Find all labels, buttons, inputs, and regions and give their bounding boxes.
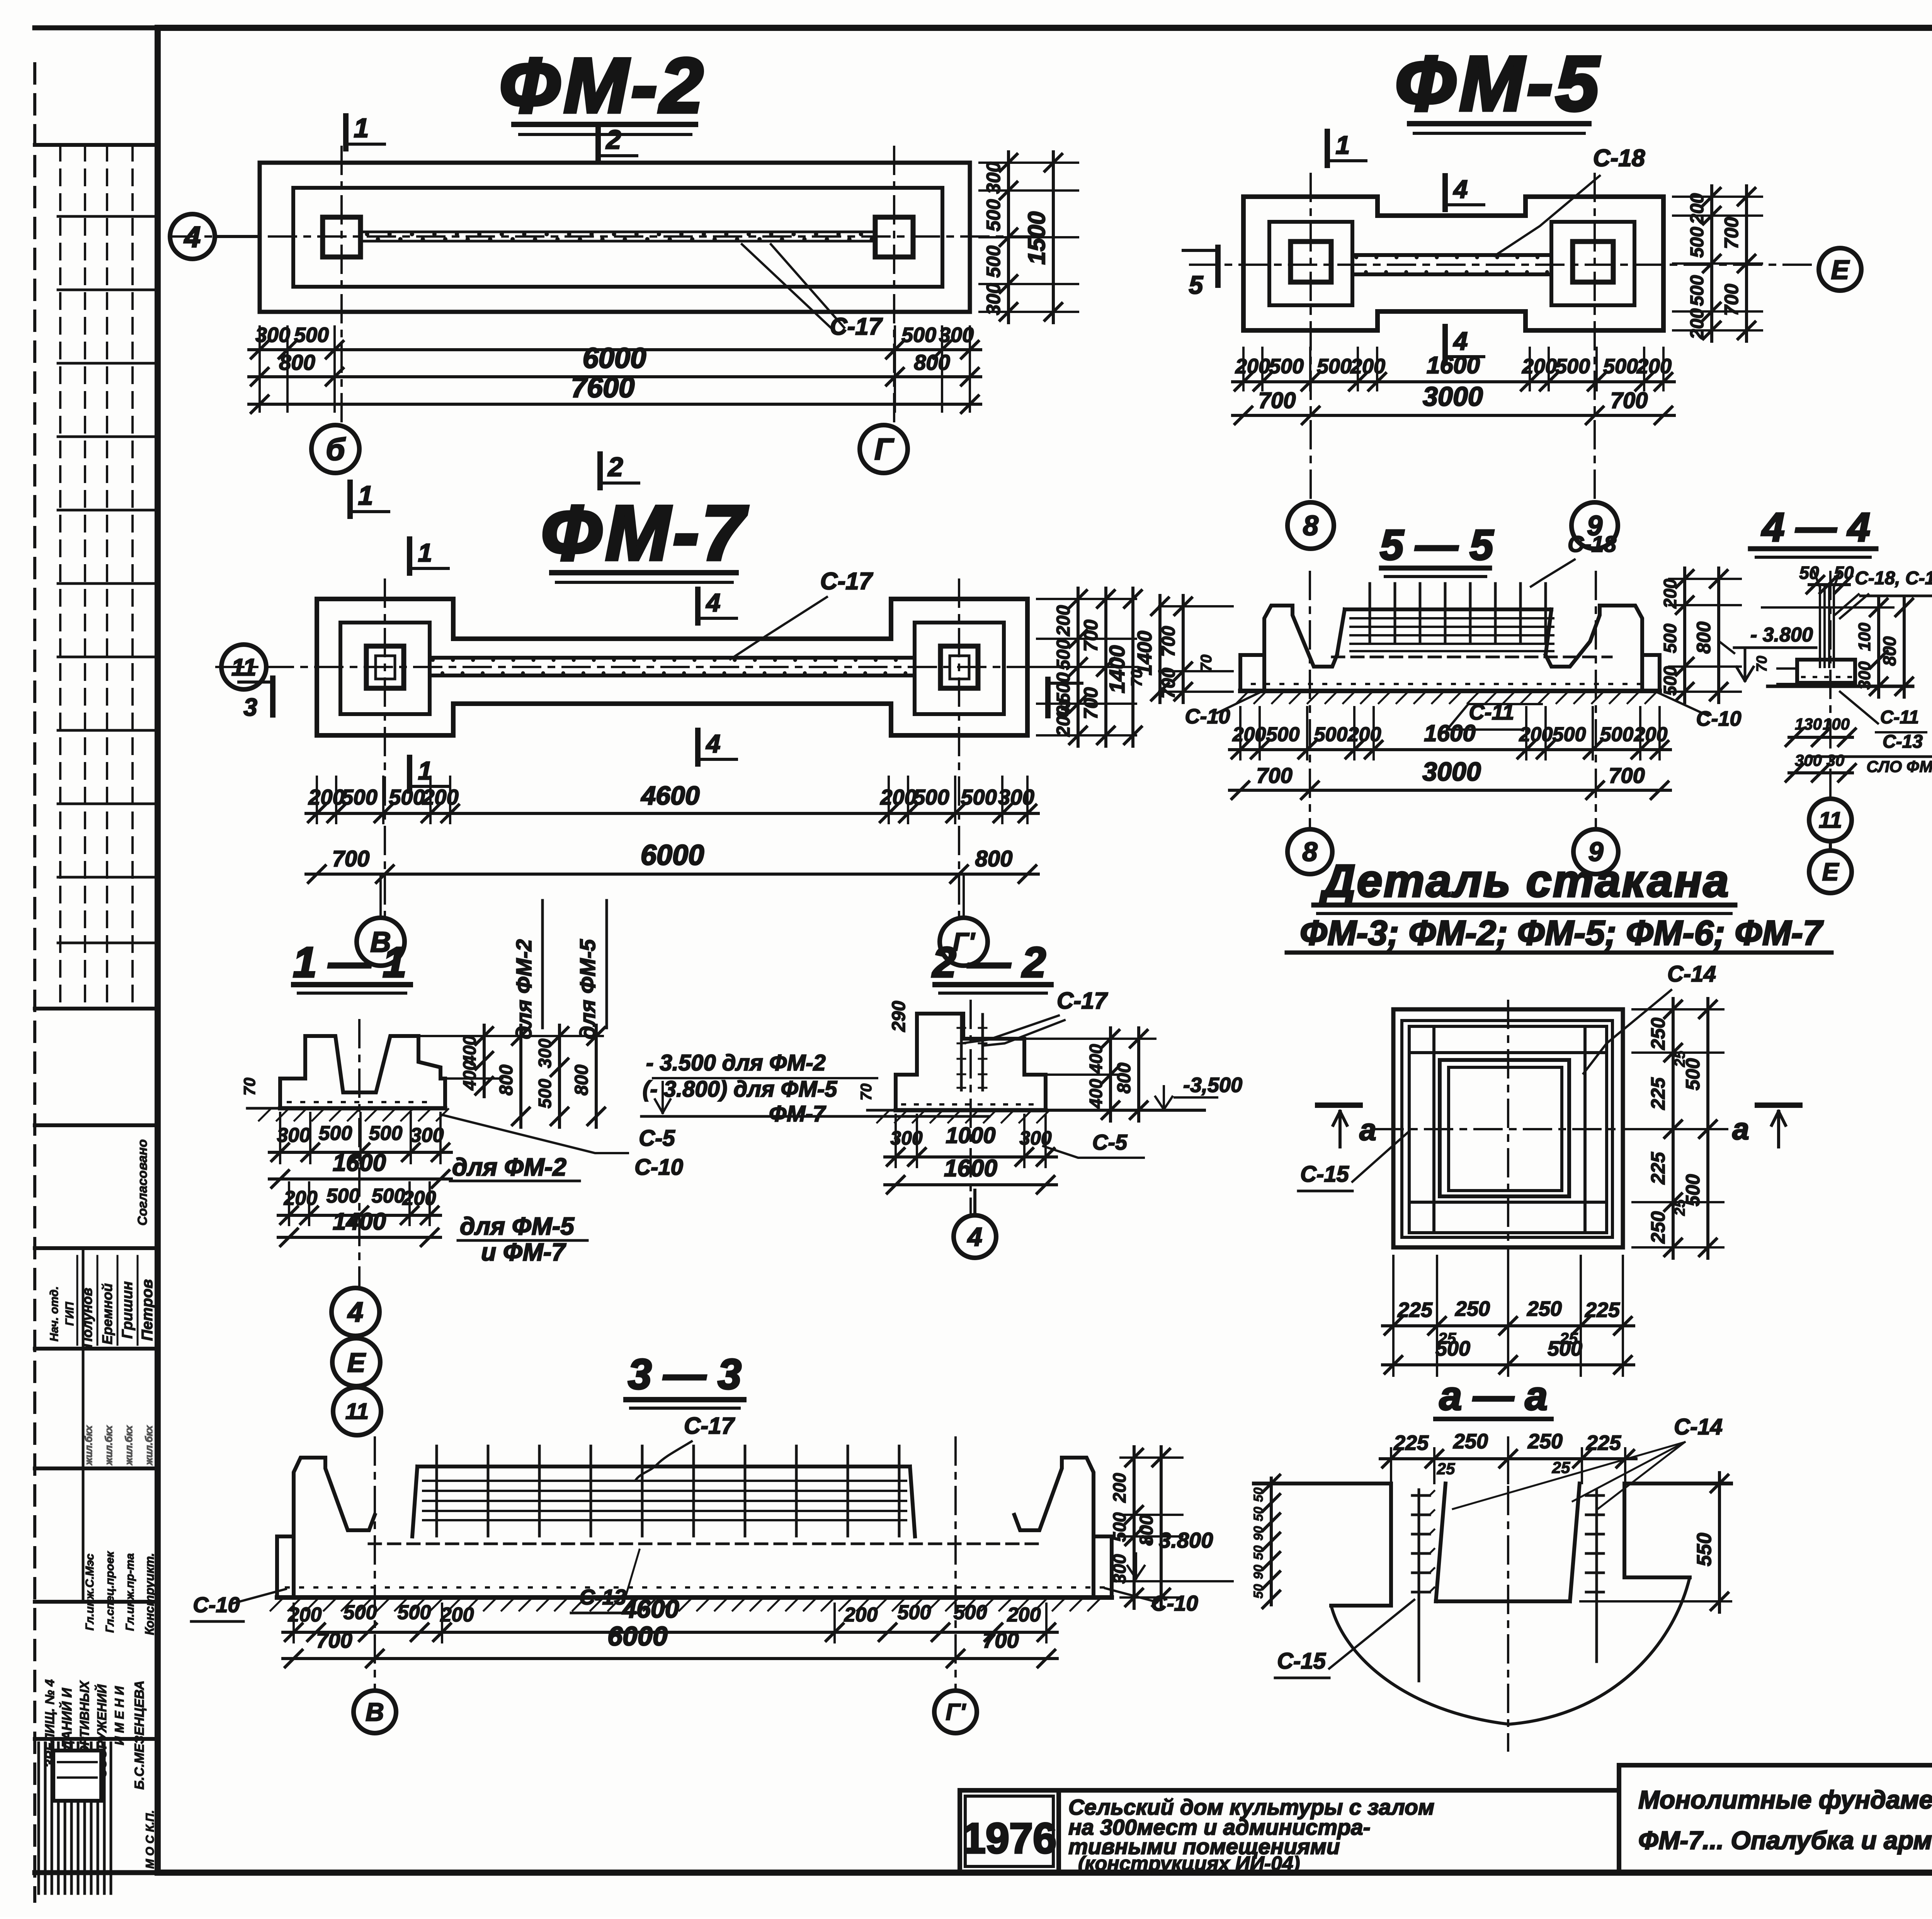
svg-text:200: 200 <box>1235 355 1270 378</box>
svg-text:С-14: С-14 <box>1674 1414 1723 1439</box>
svg-text:1: 1 <box>354 113 369 143</box>
svg-text:90: 90 <box>1251 1565 1266 1579</box>
svg-text:С-13: С-13 <box>579 1585 626 1609</box>
svg-text:400: 400 <box>459 1060 480 1090</box>
svg-text:С-10: С-10 <box>1696 707 1741 730</box>
svg-text:500: 500 <box>1548 1337 1582 1360</box>
svg-text:5: 5 <box>1189 270 1204 299</box>
svg-text:С-18: С-18 <box>1568 532 1616 557</box>
svg-text:200: 200 <box>440 1604 474 1626</box>
svg-text:1600: 1600 <box>1424 720 1475 746</box>
svg-text:500: 500 <box>1317 355 1352 378</box>
svg-text:500: 500 <box>1314 723 1348 746</box>
svg-text:200: 200 <box>308 785 344 809</box>
svg-text:800: 800 <box>1693 621 1714 654</box>
svg-text:200: 200 <box>880 785 916 809</box>
svg-text:300: 300 <box>410 1124 444 1147</box>
svg-text:500: 500 <box>1266 723 1300 746</box>
svg-text:Конструикт.: Конструикт. <box>143 1553 156 1635</box>
svg-text:4: 4 <box>706 588 721 617</box>
svg-text:Е: Е <box>1831 255 1850 285</box>
svg-text:М О С К.П.: М О С К.П. <box>144 1810 156 1869</box>
svg-text:ФМ-5: ФМ-5 <box>1395 41 1602 127</box>
svg-text:290: 290 <box>889 1001 909 1032</box>
svg-text:500: 500 <box>341 785 377 809</box>
svg-text:200: 200 <box>1519 723 1553 746</box>
svg-text:500: 500 <box>1053 672 1074 703</box>
svg-text:200: 200 <box>1350 355 1385 378</box>
svg-text:для ФМ-2: для ФМ-2 <box>512 939 536 1039</box>
svg-text:700: 700 <box>1259 388 1296 413</box>
svg-text:500: 500 <box>1553 723 1586 746</box>
svg-text:700: 700 <box>1609 763 1645 788</box>
svg-text:500: 500 <box>389 785 425 809</box>
svg-text:500: 500 <box>1687 227 1708 258</box>
svg-text:25: 25 <box>1437 1460 1455 1478</box>
svg-text:б: б <box>326 432 346 466</box>
svg-text:Гл.инж.С.Мэс: Гл.инж.С.Мэс <box>83 1553 96 1630</box>
svg-text:-3,500: -3,500 <box>1183 1073 1242 1097</box>
svg-text:800: 800 <box>1879 636 1900 666</box>
svg-text:200: 200 <box>1053 706 1074 737</box>
svg-text:800: 800 <box>496 1065 517 1096</box>
svg-text:800: 800 <box>975 846 1013 871</box>
svg-text:Е: Е <box>347 1347 366 1378</box>
svg-text:С-17: С-17 <box>820 568 873 595</box>
svg-text:25: 25 <box>1672 1199 1688 1216</box>
svg-text:500: 500 <box>901 323 936 347</box>
svg-text:500: 500 <box>1687 275 1708 306</box>
svg-text:a: a <box>1359 1113 1376 1147</box>
svg-text:250: 250 <box>1453 1430 1488 1453</box>
svg-text:225: 225 <box>1647 1152 1669 1185</box>
svg-text:700: 700 <box>1080 687 1102 720</box>
svg-text:1976: 1976 <box>962 1815 1057 1862</box>
svg-text:11: 11 <box>1819 808 1842 833</box>
svg-text:300: 300 <box>998 785 1034 809</box>
svg-text:11: 11 <box>231 654 256 681</box>
svg-text:400: 400 <box>1086 1044 1106 1074</box>
svg-text:С-10: С-10 <box>634 1155 683 1180</box>
svg-text:4: 4 <box>1453 175 1468 203</box>
svg-text:250: 250 <box>1527 1297 1562 1320</box>
svg-text:С-17: С-17 <box>830 313 883 340</box>
svg-text:700: 700 <box>1611 388 1648 413</box>
svg-text:1400: 1400 <box>1105 645 1129 694</box>
svg-text:3: 3 <box>243 693 257 721</box>
svg-text:Гл.спец.проек: Гл.спец.проек <box>104 1551 116 1633</box>
svg-text:200: 200 <box>1007 1604 1041 1626</box>
svg-text:700: 700 <box>316 1628 352 1652</box>
svg-text:Е: Е <box>1822 858 1840 886</box>
svg-text:300: 300 <box>983 162 1004 194</box>
svg-text:500: 500 <box>1555 355 1590 378</box>
svg-text:800: 800 <box>571 1065 592 1096</box>
svg-text:200: 200 <box>1522 355 1557 378</box>
svg-text:(- 3.800) для ФМ-5: (- 3.800) для ФМ-5 <box>643 1077 837 1102</box>
svg-text:500: 500 <box>1109 1512 1129 1542</box>
svg-text:2 — 2: 2 — 2 <box>932 939 1046 986</box>
svg-text:1 — 1: 1 — 1 <box>293 939 406 986</box>
svg-text:С-17: С-17 <box>1057 988 1108 1014</box>
svg-text:50: 50 <box>1251 1487 1266 1502</box>
svg-text:200: 200 <box>1109 1473 1129 1503</box>
svg-text:200: 200 <box>402 1187 436 1210</box>
svg-text:ФМ-7: ФМ-7 <box>769 1101 827 1126</box>
svg-text:Нач. отд.: Нач. отд. <box>48 1286 61 1342</box>
svg-text:300: 300 <box>277 1124 311 1147</box>
svg-text:7600: 7600 <box>571 371 635 403</box>
svg-text:400: 400 <box>1086 1079 1106 1109</box>
svg-text:5 — 5: 5 — 5 <box>1380 521 1494 569</box>
svg-text:250: 250 <box>1527 1430 1563 1453</box>
svg-text:25: 25 <box>1552 1458 1570 1477</box>
svg-text:70: 70 <box>1198 655 1215 672</box>
svg-text:500: 500 <box>954 1601 987 1624</box>
svg-text:25: 25 <box>1672 1050 1688 1067</box>
svg-text:С-13: С-13 <box>1883 732 1923 752</box>
svg-text:500: 500 <box>327 1185 360 1207</box>
svg-text:ФМ-7... Опалубка и армирова: ФМ-7... Опалубка и армирование <box>1638 1826 1932 1854</box>
svg-text:200: 200 <box>844 1604 878 1626</box>
svg-text:200: 200 <box>1232 723 1266 746</box>
svg-text:С-18, С-17: С-18, С-17 <box>1855 568 1932 589</box>
svg-text:90: 90 <box>1251 1526 1266 1541</box>
svg-text:С-5: С-5 <box>639 1126 675 1151</box>
svg-text:200: 200 <box>1634 723 1668 746</box>
svg-text:3000: 3000 <box>1422 757 1481 786</box>
svg-text:6000: 6000 <box>641 839 704 871</box>
svg-text:50: 50 <box>1251 1507 1266 1521</box>
svg-text:500: 500 <box>398 1601 431 1624</box>
svg-text:200: 200 <box>1687 308 1708 340</box>
svg-text:70: 70 <box>858 1084 875 1101</box>
svg-text:300: 300 <box>939 323 974 347</box>
svg-text:700: 700 <box>1721 284 1742 316</box>
svg-text:8: 8 <box>1303 837 1318 867</box>
svg-text:225: 225 <box>1393 1431 1429 1455</box>
svg-text:ФМ-2: ФМ-2 <box>499 43 706 129</box>
svg-text:ФМ-3; ФМ-2; ФМ-5; ФМ-6; ФМ: ФМ-3; ФМ-2; ФМ-5; ФМ-6; ФМ-7 <box>1300 914 1824 953</box>
svg-text:Г': Г' <box>946 1699 966 1725</box>
svg-text:500: 500 <box>983 245 1004 278</box>
svg-text:500: 500 <box>961 785 997 809</box>
svg-text:500: 500 <box>913 785 949 809</box>
svg-text:800: 800 <box>279 350 315 374</box>
svg-text:1: 1 <box>418 538 432 567</box>
svg-text:700: 700 <box>1721 217 1742 249</box>
svg-text:для ФМ-5: для ФМ-5 <box>460 1212 575 1240</box>
svg-text:1400: 1400 <box>1134 631 1156 675</box>
svg-text:4600: 4600 <box>622 1594 679 1623</box>
svg-text:1000: 1000 <box>946 1123 995 1148</box>
svg-text:С-14: С-14 <box>1667 961 1716 987</box>
svg-text:500: 500 <box>535 1079 555 1108</box>
svg-text:700: 700 <box>332 846 370 871</box>
svg-text:500: 500 <box>1435 1337 1470 1360</box>
svg-text:С-15: С-15 <box>1277 1649 1326 1674</box>
svg-text:С-10: С-10 <box>193 1592 240 1617</box>
svg-text:11: 11 <box>345 1399 369 1424</box>
svg-text:Гл.инж.пр-та: Гл.инж.пр-та <box>124 1553 136 1631</box>
svg-text:225: 225 <box>1397 1298 1433 1322</box>
svg-text:1: 1 <box>358 480 373 510</box>
svg-text:Согласовано: Согласовано <box>135 1139 150 1226</box>
svg-text:500: 500 <box>1053 639 1074 670</box>
svg-text:500: 500 <box>898 1601 931 1624</box>
svg-text:Б.С.МЕЗЕНЦЕВА: Б.С.МЕЗЕНЦЕВА <box>132 1681 147 1790</box>
svg-text:225: 225 <box>1585 1298 1620 1322</box>
svg-text:С-15: С-15 <box>1300 1162 1349 1187</box>
svg-text:70: 70 <box>1754 656 1770 672</box>
svg-text:800: 800 <box>1114 1063 1134 1094</box>
svg-text:Г: Г <box>874 432 894 466</box>
svg-text:200: 200 <box>1053 605 1074 636</box>
svg-text:225: 225 <box>1647 1077 1669 1110</box>
svg-text:200: 200 <box>422 785 458 809</box>
svg-text:4: 4 <box>706 729 721 758</box>
svg-text:1: 1 <box>1336 131 1350 159</box>
svg-text:- 3.500 для ФМ-2: - 3.500 для ФМ-2 <box>646 1050 826 1075</box>
svg-text:1500: 1500 <box>1024 211 1050 265</box>
svg-text:225: 225 <box>1586 1431 1621 1455</box>
svg-text:для ФМ-5: для ФМ-5 <box>575 939 600 1039</box>
svg-text:100: 100 <box>1855 623 1874 651</box>
svg-text:Петров: Петров <box>139 1279 156 1341</box>
svg-text:700: 700 <box>1080 619 1102 652</box>
svg-text:200: 200 <box>1687 193 1708 225</box>
svg-text:жил.бкх: жил.бкх <box>123 1425 134 1466</box>
svg-text:С-10: С-10 <box>1185 705 1230 728</box>
svg-text:8: 8 <box>1303 510 1318 541</box>
svg-text:6000: 6000 <box>583 342 646 374</box>
svg-text:500: 500 <box>294 323 329 347</box>
svg-text:250: 250 <box>1455 1297 1490 1320</box>
svg-text:С-11: С-11 <box>1880 707 1919 728</box>
svg-text:4600: 4600 <box>640 781 699 810</box>
svg-text:250: 250 <box>1647 1211 1669 1244</box>
svg-text:И М Е Н И: И М Е Н И <box>112 1686 126 1745</box>
svg-text:550: 550 <box>1693 1533 1716 1567</box>
svg-text:Монолитные фундаменты. ФМ-2;: Монолитные фундаменты. ФМ-2; ФМ-5; <box>1638 1785 1932 1814</box>
svg-text:6000: 6000 <box>607 1621 668 1651</box>
svg-text:и ФМ-7: и ФМ-7 <box>481 1238 566 1266</box>
svg-text:4: 4 <box>967 1222 982 1252</box>
svg-text:3 — 3: 3 — 3 <box>628 1351 741 1398</box>
svg-text:- 3.800: - 3.800 <box>1146 1528 1213 1552</box>
svg-text:500: 500 <box>369 1122 403 1145</box>
svg-text:500: 500 <box>319 1122 352 1145</box>
svg-text:Еремной: Еремной <box>99 1283 115 1344</box>
svg-text:Деталь стакана: Деталь стакана <box>1319 856 1730 907</box>
svg-text:4 — 4: 4 — 4 <box>1761 505 1870 550</box>
svg-text:200: 200 <box>1636 355 1672 378</box>
svg-text:1400: 1400 <box>333 1208 386 1235</box>
svg-text:для ФМ-2: для ФМ-2 <box>452 1153 566 1181</box>
svg-text:a: a <box>1732 1112 1749 1146</box>
svg-text:4: 4 <box>1453 327 1468 355</box>
svg-text:1600: 1600 <box>333 1150 386 1176</box>
svg-text:жил.бкх: жил.бкх <box>143 1425 155 1466</box>
svg-text:300: 300 <box>983 283 1004 315</box>
svg-text:С-5: С-5 <box>1092 1130 1128 1154</box>
svg-text:ГИП: ГИП <box>63 1301 76 1326</box>
svg-text:С-17: С-17 <box>684 1413 735 1439</box>
svg-text:250: 250 <box>1647 1017 1669 1050</box>
svg-text:50: 50 <box>1251 1545 1266 1560</box>
svg-text:(конструкциях ИИ-04): (конструкциях ИИ-04) <box>1078 1853 1300 1875</box>
svg-text:1600: 1600 <box>1427 352 1480 379</box>
svg-text:500: 500 <box>1600 723 1634 746</box>
svg-text:50: 50 <box>1251 1584 1266 1599</box>
svg-text:500: 500 <box>1660 666 1680 696</box>
svg-text:1600: 1600 <box>944 1155 997 1182</box>
svg-text:В: В <box>366 1698 384 1726</box>
svg-text:70: 70 <box>240 1078 259 1096</box>
svg-text:500: 500 <box>1660 623 1680 653</box>
svg-text:200: 200 <box>1347 723 1381 746</box>
svg-text:СЛО ФМ-7: СЛО ФМ-7 <box>1866 757 1932 776</box>
svg-text:500: 500 <box>983 199 1004 231</box>
svg-text:С-18: С-18 <box>1593 145 1645 172</box>
svg-text:200: 200 <box>1660 578 1680 609</box>
svg-text:700: 700 <box>1256 763 1292 788</box>
svg-text:500: 500 <box>1603 355 1638 378</box>
svg-text:130: 130 <box>1795 715 1822 733</box>
svg-text:4: 4 <box>184 221 201 253</box>
svg-text:500: 500 <box>372 1185 405 1207</box>
svg-text:a — a: a — a <box>1439 1373 1548 1419</box>
svg-text:300: 300 <box>255 323 290 347</box>
svg-text:- 3.800: - 3.800 <box>1750 624 1813 646</box>
svg-text:300: 300 <box>1109 1554 1129 1584</box>
svg-text:2: 2 <box>607 452 623 482</box>
svg-text:500: 500 <box>344 1601 377 1624</box>
svg-text:300: 300 <box>535 1038 555 1068</box>
svg-text:С-10: С-10 <box>1151 1591 1198 1615</box>
svg-text:Гришин: Гришин <box>119 1281 136 1339</box>
svg-text:800: 800 <box>914 350 950 374</box>
svg-text:4: 4 <box>347 1297 363 1328</box>
svg-text:жил.бкх: жил.бкх <box>103 1425 114 1466</box>
svg-text:500: 500 <box>1269 355 1304 378</box>
svg-text:Полунов: Полунов <box>79 1288 95 1347</box>
svg-text:300: 300 <box>1855 661 1874 690</box>
svg-text:700: 700 <box>983 1628 1019 1652</box>
svg-text:2: 2 <box>605 124 621 155</box>
svg-text:3000: 3000 <box>1423 381 1483 412</box>
svg-text:ФМ-7: ФМ-7 <box>541 490 748 576</box>
